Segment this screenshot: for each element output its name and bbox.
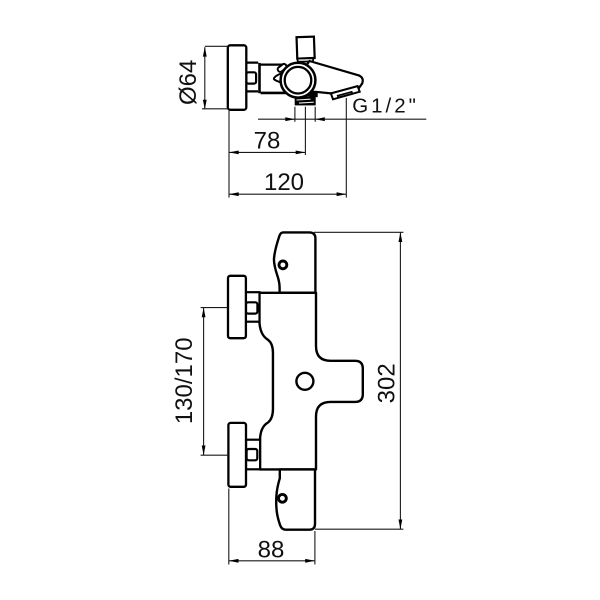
svg-text:130/170: 130/170: [171, 337, 198, 424]
svg-text:G1/2": G1/2": [352, 95, 419, 118]
svg-text:302: 302: [373, 363, 400, 403]
svg-text:88: 88: [258, 537, 285, 564]
svg-text:Ø64: Ø64: [175, 60, 202, 105]
svg-text:120: 120: [264, 169, 304, 196]
svg-text:78: 78: [254, 128, 281, 155]
